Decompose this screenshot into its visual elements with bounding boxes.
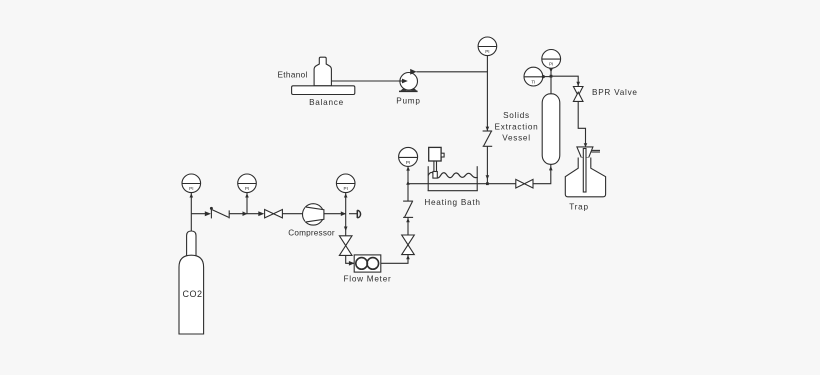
pipe check valve to valve V1	[229, 213, 262, 215]
svg-text:PI: PI	[485, 49, 489, 54]
gauge PI6	[542, 50, 561, 77]
svg-text:PI: PI	[406, 160, 410, 165]
check valve CV2 vertical	[483, 131, 493, 146]
BPR valve	[573, 87, 637, 102]
pipe pump to corner C	[416, 72, 487, 131]
valve V1	[258, 210, 282, 218]
compressor U1	[288, 204, 335, 238]
pipe elbow into flow meter	[346, 256, 355, 264]
flow meter FM1	[344, 255, 392, 284]
pipe CO2 cylinder to check valve	[191, 213, 208, 215]
svg-text:BPR Valve: BPR Valve	[592, 88, 638, 97]
pipe heating bath line	[408, 183, 516, 185]
valve V4	[516, 179, 533, 188]
svg-text:Solids: Solids	[503, 111, 530, 120]
svg-text:CO2: CO2	[183, 289, 203, 299]
pipe valve V4 to vessel bottom	[533, 165, 551, 184]
svg-text:Balance: Balance	[309, 98, 344, 107]
check valve CV3 vertical	[403, 201, 413, 222]
svg-text:Trap: Trap	[569, 202, 589, 211]
arrow down above ethanol check	[486, 127, 490, 131]
pipe flow meter to right riser	[381, 255, 408, 263]
pump P1	[396, 69, 420, 106]
svg-text:Compressor: Compressor	[288, 229, 335, 238]
pipe compressor to junction A	[324, 213, 346, 215]
svg-text:Heating Bath: Heating Bath	[424, 198, 480, 207]
BPR valve arrow	[576, 82, 580, 86]
svg-text:TI: TI	[531, 79, 535, 84]
solids extraction vessel	[495, 94, 560, 165]
pipe valve V1 to compressor	[283, 213, 303, 215]
valve V3	[402, 235, 415, 255]
valve V2	[339, 236, 352, 256]
svg-text:Extraction: Extraction	[495, 122, 539, 131]
balance	[292, 86, 355, 107]
pipe right riser valve V3 to check valve CV3	[407, 218, 409, 235]
arrow down on drop line	[344, 227, 348, 232]
arrow up below valve V3	[406, 255, 410, 259]
stirrer motor	[429, 147, 444, 178]
pipe right riser check to junction B	[407, 184, 409, 201]
svg-text:PI: PI	[344, 186, 348, 191]
node B2	[486, 182, 489, 185]
arrow down into trap funnel	[584, 143, 588, 147]
pipe vessel top to junction D	[550, 76, 552, 94]
svg-text:Vessel: Vessel	[502, 134, 531, 143]
D cap vent	[357, 210, 360, 218]
pipe ethanol bottle to pump	[331, 80, 402, 82]
gauge PI5	[478, 37, 497, 72]
trap flask	[565, 149, 605, 212]
trap funnel	[577, 147, 600, 158]
svg-text:Pump: Pump	[396, 97, 420, 106]
ethanol bottle	[278, 57, 332, 86]
pipe BPR valve to trap funnel	[578, 101, 585, 145]
gauge PI4	[399, 147, 418, 183]
svg-text:Ethanol: Ethanol	[278, 70, 308, 79]
arrow up into vessel	[549, 166, 553, 171]
gauge PI3	[336, 174, 355, 216]
gauge PI2	[238, 174, 257, 216]
heating bath	[424, 166, 480, 207]
svg-text:PI: PI	[245, 186, 249, 191]
svg-text:PI: PI	[189, 186, 193, 191]
node A junction with D cap	[349, 213, 357, 215]
check valve CV1	[205, 207, 229, 219]
arrow up into junction B	[406, 181, 410, 185]
gauge PI1	[182, 174, 201, 232]
pipe junction D to BPR valve	[551, 76, 578, 86]
pipe ethanol check to junction B2	[486, 146, 488, 183]
svg-text:Flow Meter: Flow Meter	[344, 275, 392, 284]
arrow down into junction B2	[486, 175, 490, 179]
CO2 cylinder	[179, 231, 204, 334]
pipe junction A down to valve V2	[345, 214, 347, 236]
svg-text:PI: PI	[549, 62, 553, 67]
gauge TI7	[524, 67, 552, 86]
